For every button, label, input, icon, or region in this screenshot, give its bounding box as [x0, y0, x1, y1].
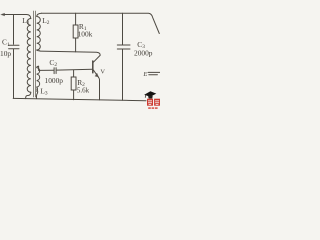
- svg-text:10p: 10p: [0, 49, 11, 58]
- svg-text:2000p: 2000p: [134, 49, 153, 58]
- svg-text:V: V: [100, 69, 105, 76]
- svg-text:E: E: [142, 71, 147, 78]
- svg-text:1000p: 1000p: [45, 76, 64, 85]
- svg-text:5.6k: 5.6k: [77, 86, 90, 94]
- svg-text:100k: 100k: [78, 29, 93, 38]
